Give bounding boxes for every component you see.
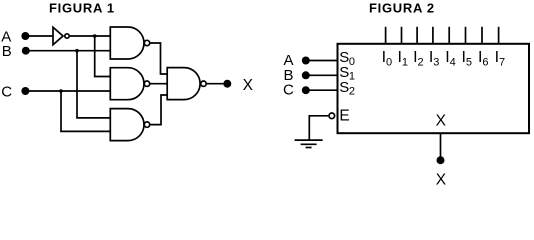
svg-text:FIGURA 2: FIGURA 2 xyxy=(369,1,435,16)
svg-text:X: X xyxy=(243,77,254,94)
svg-text:E: E xyxy=(339,108,349,125)
svg-text:X: X xyxy=(436,171,447,186)
svg-text:0: 0 xyxy=(386,57,392,69)
svg-text:5: 5 xyxy=(466,57,472,69)
svg-text:S: S xyxy=(339,79,349,96)
svg-text:1: 1 xyxy=(349,71,355,83)
svg-text:7: 7 xyxy=(499,57,505,69)
svg-text:3: 3 xyxy=(433,57,439,69)
svg-text:X: X xyxy=(436,112,447,129)
svg-text:C: C xyxy=(283,82,294,99)
svg-text:1: 1 xyxy=(402,57,408,69)
svg-text:FIGURA 1: FIGURA 1 xyxy=(49,1,115,16)
svg-text:2: 2 xyxy=(418,57,424,69)
svg-text:6: 6 xyxy=(482,57,488,69)
svg-text:0: 0 xyxy=(349,56,355,68)
svg-text:4: 4 xyxy=(450,57,456,69)
svg-text:C: C xyxy=(1,83,12,100)
svg-text:B: B xyxy=(2,43,12,60)
svg-text:2: 2 xyxy=(349,85,355,97)
